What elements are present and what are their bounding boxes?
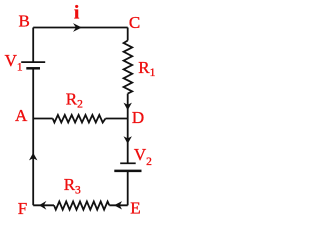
svg-text:i: i	[74, 3, 79, 24]
svg-text:R1: R1	[138, 58, 155, 79]
svg-text:E: E	[130, 199, 140, 218]
svg-text:F: F	[18, 199, 27, 218]
svg-text:R3: R3	[64, 175, 81, 197]
svg-text:A: A	[15, 106, 28, 125]
svg-text:B: B	[19, 12, 30, 31]
svg-text:R2: R2	[66, 89, 83, 110]
svg-text:D: D	[132, 108, 144, 127]
svg-text:V2: V2	[134, 145, 152, 168]
svg-text:V1: V1	[5, 51, 23, 73]
svg-text:C: C	[129, 13, 140, 32]
